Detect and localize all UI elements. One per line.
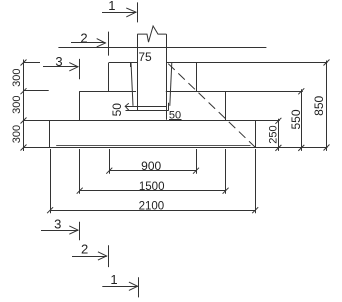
svg-text:2100: 2100 — [139, 201, 165, 213]
svg-text:550: 550 — [289, 109, 303, 129]
svg-text:1: 1 — [108, 0, 115, 13]
svg-text:1: 1 — [110, 272, 117, 287]
svg-text:250: 250 — [267, 125, 279, 143]
svg-text:50: 50 — [110, 103, 124, 117]
svg-text:850: 850 — [312, 95, 326, 115]
svg-text:75: 75 — [138, 50, 152, 64]
svg-text:1500: 1500 — [139, 181, 165, 193]
svg-text:300: 300 — [11, 69, 23, 87]
svg-text:2: 2 — [81, 242, 88, 257]
svg-text:900: 900 — [141, 159, 161, 173]
svg-text:3: 3 — [54, 216, 61, 231]
svg-text:2: 2 — [80, 31, 87, 46]
svg-text:300: 300 — [11, 96, 23, 114]
svg-text:300: 300 — [11, 125, 23, 143]
